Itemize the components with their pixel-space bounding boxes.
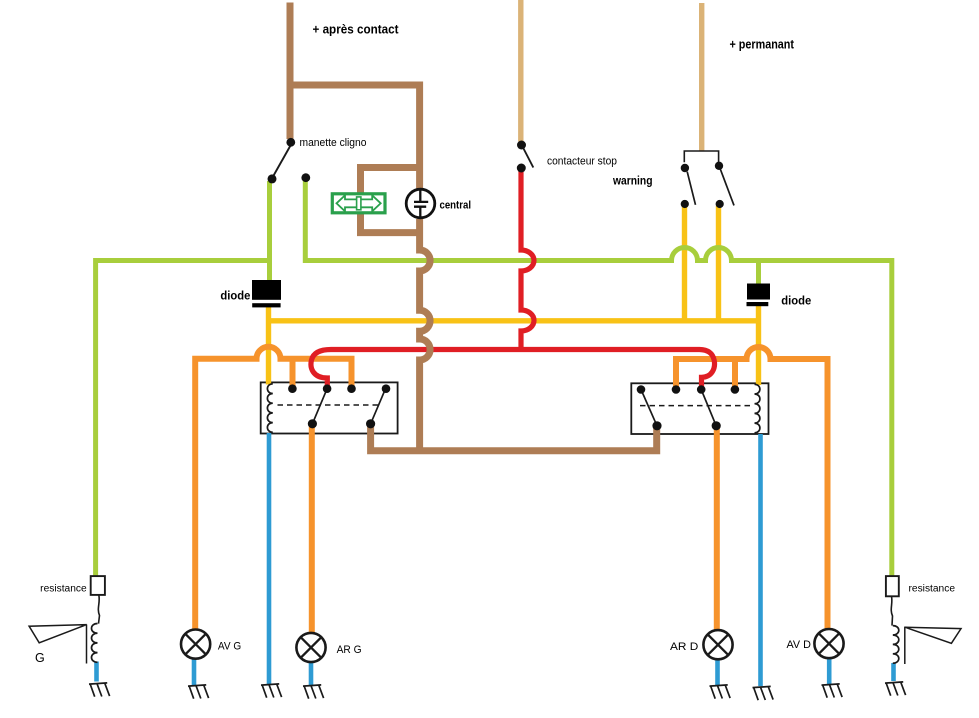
relay K1 pin 2 (323, 384, 332, 393)
svg-text:manette cligno: manette cligno (300, 137, 367, 149)
wire yellow bus (269, 318, 759, 323)
wire blue AV D lamp to ground (827, 658, 832, 684)
switch warning right lever (720, 169, 734, 205)
relay K2 box (631, 383, 768, 434)
diode D2 cathode bar (747, 302, 769, 306)
switch contacteur stop lever (524, 149, 534, 168)
svg-text:AR D: AR D (670, 641, 698, 653)
wire orange drop to relay K2 pin H (732, 359, 738, 390)
node contacteur stop top (517, 141, 526, 150)
wire green left bus to left resistance (96, 261, 270, 576)
wire blue right horn coil to ground (891, 663, 896, 681)
wire orange right bus with hop over yellow, to AV D (676, 347, 828, 629)
wire brown central down with hops over green yellow red (420, 219, 431, 451)
svg-text:G: G (35, 651, 45, 665)
wire orange drop to relay K1 pin A (290, 359, 296, 389)
relay K2 contact arm 2 (701, 390, 716, 426)
wire blue left horn coil to ground (94, 662, 99, 682)
relay K1 contact arm 2 (371, 388, 386, 424)
diode D1 body (252, 280, 281, 300)
node warning left top (681, 164, 689, 172)
wire brown apres contact down to manette (287, 3, 294, 140)
resistance left box (91, 576, 105, 595)
relay K1 box (261, 382, 398, 433)
relay K2 contact arm 1 (641, 390, 657, 426)
svg-text:+ après contact: + après contact (313, 22, 400, 37)
svg-text:AR G: AR G (337, 644, 362, 656)
ground AR D (710, 685, 731, 699)
wire red bus with hooks into relay pins (311, 350, 715, 391)
resistance right box (886, 576, 899, 596)
node manette right contact (301, 173, 310, 182)
ground relay K1 coil (261, 684, 282, 698)
relay K1 pin 3 (347, 384, 356, 393)
switch warning left lever (687, 172, 695, 205)
ground right horn (885, 682, 906, 696)
relay K2 coil (755, 384, 760, 433)
node warning right bottom (716, 200, 724, 208)
wire brown relay arms link (371, 424, 657, 451)
wire orange relay K2 to AR D lamp (714, 426, 720, 630)
ground relay K2 coil (753, 686, 774, 700)
node manette common (286, 138, 295, 147)
svg-text:warning: warning (612, 174, 652, 188)
wire brown branch to central (290, 85, 420, 189)
horn G mouth line (86, 625, 88, 664)
ground AV G (188, 685, 209, 699)
svg-text:central: central (440, 200, 472, 212)
flasher icon right arrow (360, 195, 381, 211)
wire tan +permanant feed to warning (699, 3, 704, 151)
wire brown loop through flasher icon (361, 168, 420, 233)
wire tan +permanant feed to contacteur stop (518, 0, 523, 142)
flasher indicator icon frame (332, 194, 385, 213)
wire yellow left diode to relay K1 coil (266, 307, 271, 385)
diode D1 cathode bar (252, 303, 280, 307)
relay K2 pin 3 (697, 385, 706, 394)
svg-text:diode: diode (220, 289, 250, 303)
lamp AV D (814, 629, 843, 658)
svg-text:AV G: AV G (218, 641, 241, 653)
relay K2 bottom node 2 (712, 421, 721, 430)
horn G cone (29, 625, 87, 643)
svg-text:+ permanant: + permanant (730, 38, 795, 52)
wire green stub to right diode (756, 261, 761, 284)
wire blue relay K1 coil to ground (267, 433, 272, 684)
ground left horn (89, 683, 110, 697)
left horn coil (92, 624, 98, 663)
wire yellow right diode to relay K2 coil (756, 306, 761, 386)
relay K2 pin 4 (731, 385, 740, 394)
relay K1 coil (267, 384, 272, 433)
node contacteur stop bottom (517, 164, 526, 173)
node warning right top (715, 162, 723, 170)
node manette left contact (268, 174, 277, 183)
wire yellow warning right pole down to yellow bus (716, 206, 721, 321)
relay K1 bottom node 1 (308, 419, 317, 428)
relay K1 contact arm 1 (312, 389, 327, 424)
switch manette cligno lever (273, 146, 291, 177)
svg-text:contacteur stop: contacteur stop (547, 156, 617, 168)
relay K1 dashed link (278, 404, 381, 406)
svg-text:resistance: resistance (40, 584, 87, 595)
horn D cone (905, 627, 961, 643)
svg-text:AV D: AV D (787, 639, 811, 651)
left link wire (98, 595, 99, 624)
diode D2 body (747, 284, 770, 300)
svg-text:resistance: resistance (909, 584, 956, 595)
horn D mouth line (904, 627, 906, 664)
switch warning feed bracket (684, 151, 718, 163)
ground AV D (822, 684, 843, 698)
wire orange relay K1 to AR G lamp (309, 424, 315, 633)
wire green manette left output down to diode (267, 181, 272, 281)
right horn coil (893, 626, 899, 664)
right link wire (891, 596, 892, 625)
wire green right bus with hops over warning yellows, to right resistance (305, 180, 892, 576)
wire yellow warning left pole down to yellow bus (682, 206, 687, 321)
relay K2 pin 2 (672, 385, 681, 394)
relay K1 pin 1 (288, 384, 297, 393)
lamp AR D (703, 630, 732, 659)
wire blue AR G lamp to ground (309, 663, 314, 686)
relay K2 pin 1 (637, 385, 646, 394)
wire blue AR D lamp to ground (715, 660, 720, 686)
wire red contacteur stop down with hops over green and yellow (521, 167, 534, 350)
wire blue AV G lamp to ground (192, 659, 197, 685)
ground AR G (303, 685, 324, 699)
relay K2 bottom node 1 (652, 421, 661, 430)
relay K1 pin 4 (382, 384, 391, 393)
relay K2 dashed link (640, 405, 750, 407)
svg-text:diode: diode (781, 294, 811, 308)
flasher icon center bar (357, 197, 361, 210)
wire orange left bus with hop over yellow, AV G drop and pins (195, 347, 351, 630)
flasher icon left arrow (337, 195, 358, 211)
wire blue relay K2 coil to ground (758, 434, 763, 686)
node warning left bottom (681, 200, 689, 208)
flasher unit central circle (406, 189, 435, 218)
lamp AV G (181, 630, 210, 659)
central capacitor symbol (414, 190, 428, 218)
relay K1 bottom node 2 (366, 419, 375, 428)
lamp AR G (296, 633, 325, 662)
